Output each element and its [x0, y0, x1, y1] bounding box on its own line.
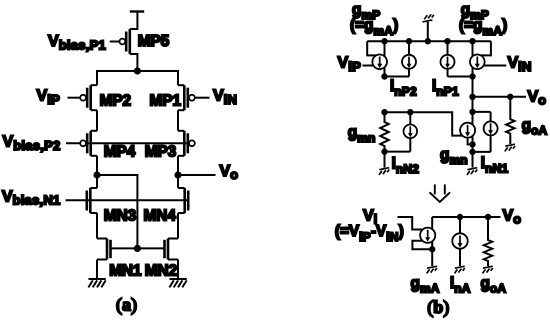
svg-text:gmn: gmn — [440, 146, 468, 167]
wire top bus — [367, 40, 491, 42]
wire MN1 source to ground — [96, 260, 98, 280]
current source gmn-R (U-gmn) — [460, 123, 475, 138]
wire ViP input — [363, 65, 380, 67]
ground (goA bottom, small earth) — [483, 266, 493, 273]
resistor goA (top) — [506, 97, 514, 144]
node Vo dot — [174, 171, 181, 178]
ground (MN1) — [88, 279, 105, 287]
wire ViN input — [477, 65, 506, 67]
wire MP2 drain to MP4 source — [96, 110, 98, 131]
wire MN3 source to MN1 drain — [96, 213, 98, 239]
wire MP2 gate — [68, 97, 81, 99]
svg-text:inN2: inN2 — [392, 155, 420, 176]
wire left node bus to gmn-R control — [385, 112, 468, 135]
transistor MN4 — [178, 188, 188, 213]
svg-text:Vo: Vo — [220, 163, 239, 182]
ground (left branch, small earth) — [379, 168, 389, 175]
svg-text:(b): (b) — [427, 297, 449, 318]
wire tail bus — [97, 71, 178, 85]
svg-text:Vbias,N1: Vbias,N1 — [2, 188, 61, 207]
current source inP1 — [441, 55, 455, 69]
transistor MP3 — [178, 131, 195, 156]
resistor gmn (left) — [380, 112, 388, 151]
svg-text:inP1: inP1 — [432, 78, 459, 99]
wire inP1 to gmP-R node — [448, 76, 473, 78]
node dots mid — [381, 73, 387, 79]
wire supply to MP5 source — [130, 12, 138, 30]
wire gmP-R output branch (down to inN1 node) — [472, 41, 474, 152]
wire MP4 drain to node A — [96, 156, 98, 188]
wire MN4 source to MN2 drain — [177, 213, 179, 239]
wire gmP-L control hook — [367, 41, 380, 55]
svg-text:gmn: gmn — [348, 124, 376, 145]
wire MP5 gate — [110, 41, 120, 43]
transistor MP4 — [80, 131, 97, 156]
wire gmP-R control hook — [477, 41, 491, 55]
wire inP1 branch — [447, 41, 449, 76]
resistor goA (bottom) — [484, 217, 492, 266]
wire MN1/MN2 gate bus — [111, 247, 165, 249]
wire gmn-R output bottom loop — [468, 138, 473, 145]
node dot gmA bottom — [429, 246, 435, 252]
svg-text:Vbias,P2: Vbias,P2 — [3, 134, 61, 153]
node dot inA top — [457, 214, 463, 220]
implication double arrow — [430, 184, 451, 202]
svg-text:MN3: MN3 — [104, 208, 136, 225]
current source gmP-R (U-gmP-R) — [470, 55, 485, 70]
svg-text:MP2: MP2 — [100, 93, 131, 110]
current source gmP-L (U-gmP-L) — [372, 55, 387, 70]
wire MP1 gate — [195, 97, 210, 99]
transistor MP5 — [120, 29, 130, 54]
svg-text:MN2: MN2 — [145, 262, 177, 279]
svg-text:ViP: ViP — [338, 55, 362, 74]
ground (MN2) — [169, 279, 186, 287]
current source gmA (U-gmA) — [420, 228, 435, 243]
svg-text:MP1: MP1 — [150, 93, 182, 110]
wire inP2 branch — [408, 41, 410, 76]
transistor MN2 — [165, 239, 179, 260]
transistor MP1 — [178, 85, 195, 110]
wire inN1 node bus — [473, 111, 491, 113]
wire Vo branch — [473, 96, 527, 98]
wire gmn node to ground — [384, 152, 386, 168]
transistor MN1 — [97, 239, 111, 260]
current source inN1 — [484, 121, 498, 135]
node dot goA top — [485, 214, 491, 220]
wire right branch to ground — [472, 152, 474, 168]
svg-text:Vo: Vo — [528, 89, 547, 108]
ground (right branch, small earth) — [467, 168, 477, 175]
svg-text:inP2: inP2 — [390, 78, 417, 99]
wire output rail (gmA to Vo) — [432, 216, 500, 218]
supply (AC ground, inverted earth) — [423, 14, 434, 22]
wire inN1 branch — [490, 112, 492, 152]
wire supply stub — [427, 22, 429, 41]
svg-text:ViP: ViP — [37, 88, 61, 107]
wire node A to MN1/MN2 gate column — [97, 175, 137, 248]
wire inA branch — [459, 217, 461, 266]
wire inN1 bottom loop — [473, 151, 491, 153]
wire Vbias,N1 gate line — [66, 199, 189, 201]
svg-text:gmA: gmA — [411, 275, 440, 296]
svg-text:inA: inA — [450, 275, 471, 296]
svg-text:goA: goA — [522, 117, 548, 138]
svg-text:ViN: ViN — [508, 55, 532, 74]
svg-text:MP4: MP4 — [104, 143, 136, 160]
svg-text:MP5: MP5 — [138, 33, 170, 50]
wire Vo output — [178, 174, 216, 176]
supply rail T symbol — [130, 10, 144, 12]
svg-text:ViN: ViN — [213, 88, 237, 107]
wire Vbias,P2 gate line — [66, 142, 192, 144]
wire MP1 drain to MP3 source — [177, 110, 179, 131]
wire inN2 bottom to gmn node — [385, 151, 411, 153]
wire gmP-L output branch — [384, 41, 386, 76]
ground (goA top, small earth) — [505, 144, 515, 151]
wire inN2 branch — [409, 112, 411, 151]
current source inA — [452, 233, 467, 248]
wire MN2 source to ground — [177, 260, 179, 280]
svg-text:(a): (a) — [116, 295, 137, 316]
svg-text:MP3: MP3 — [145, 143, 176, 160]
node gate bus dot — [134, 245, 141, 252]
node dots bottom — [381, 148, 387, 154]
svg-text:Vo: Vo — [503, 207, 522, 226]
transistor MN3 — [87, 188, 97, 213]
wire MP5 drain to tail node — [130, 54, 138, 71]
node tail dot — [134, 67, 141, 74]
svg-text:goA: goA — [481, 275, 507, 296]
ground (inA, small earth) — [455, 266, 465, 273]
wire MP3 drain to node Vo — [177, 156, 179, 188]
current source inN2 — [404, 125, 418, 139]
svg-text:Vbias,P1: Vbias,P1 — [48, 33, 106, 52]
current source inP2 — [402, 55, 416, 69]
wire gmA output branch — [431, 217, 433, 266]
wire gmA control return hook — [412, 241, 432, 249]
svg-text:(=ViP-ViN): (=ViP-ViN) — [335, 223, 404, 244]
transistor MP2 — [80, 85, 97, 110]
ground (gmA, small earth) — [427, 266, 437, 273]
wire Vi input — [398, 217, 428, 230]
svg-text:MN1: MN1 — [109, 262, 142, 279]
svg-text:inN1: inN1 — [481, 155, 509, 176]
node dots top bus — [381, 38, 387, 44]
wire inP2 to gmP-L node — [385, 76, 410, 78]
node A dot — [93, 171, 100, 178]
svg-text:MN4: MN4 — [144, 208, 177, 225]
